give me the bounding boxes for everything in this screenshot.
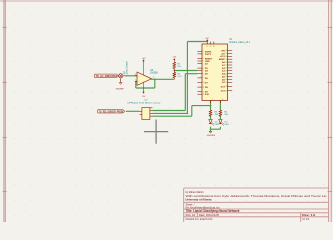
svg-text:30: 30: [213, 46, 215, 48]
svg-text:D1/TX: D1/TX: [205, 54, 212, 56]
svg-text:1: 1: [153, 77, 154, 79]
svg-text:Rev: 1.0: Rev: 1.0: [302, 213, 315, 217]
svg-text:13: 13: [203, 94, 205, 96]
svg-text:Date: 2024-03-05: Date: 2024-03-05: [199, 213, 220, 217]
svg-text:17: 17: [206, 46, 208, 48]
svg-text:+5V: +5V: [172, 56, 176, 58]
svg-text:18: 18: [225, 56, 227, 58]
svg-text:3: 3: [203, 58, 204, 60]
svg-text:TO_pH_AMPLIFIER: TO_pH_AMPLIFIER: [96, 74, 118, 78]
svg-text:11: 11: [203, 87, 205, 89]
svg-text:4: 4: [203, 61, 204, 63]
svg-text:6: 6: [203, 68, 204, 70]
svg-text:Title: Liquid Classifying Neur: Title: Liquid Classifying Neural Network: [186, 209, 240, 213]
svg-text:3: 3: [135, 74, 136, 76]
svg-text:28: 28: [225, 86, 227, 88]
svg-text:20: 20: [225, 62, 227, 64]
svg-text:TO_TDS_SENSOR_PROBE: TO_TDS_SENSOR_PROBE: [99, 109, 124, 113]
svg-text:19: 19: [225, 59, 227, 61]
svg-text:KiCad E.D.A. kicad 6.0.11: KiCad E.D.A. kicad 6.0.11: [186, 217, 214, 221]
svg-text:University of Alberta: University of Alberta: [186, 198, 212, 202]
svg-text:LED: LED: [215, 124, 220, 126]
svg-text:1: 1: [203, 51, 204, 53]
svg-text:9: 9: [203, 78, 204, 80]
svg-text:24: 24: [225, 73, 227, 75]
svg-text:Conn_Coaxial: Conn_Coaxial: [126, 61, 129, 74]
svg-text:Id: 1/1: Id: 1/1: [302, 218, 310, 221]
svg-text:2: 2: [203, 54, 204, 56]
svg-text:7: 7: [203, 70, 204, 72]
svg-text:+5V: +5V: [142, 58, 146, 60]
svg-text:25: 25: [225, 76, 227, 78]
svg-text:12: 12: [203, 91, 205, 93]
svg-text:LM358: LM358: [150, 72, 158, 75]
svg-text:27: 27: [210, 46, 212, 48]
svg-text:26: 26: [225, 79, 227, 81]
svg-text:GNDREF: GNDREF: [207, 135, 216, 137]
svg-text:10: 10: [203, 82, 205, 84]
svg-text:DFRobot TDS Meter sensor: DFRobot TDS Meter sensor: [128, 102, 161, 105]
svg-text:Size: A4: Size: A4: [186, 213, 196, 217]
svg-text:2: 2: [135, 79, 136, 81]
svg-text:Arduino_Nano_v3.x: Arduino_Nano_v3.x: [229, 41, 251, 44]
svg-text:22: 22: [225, 68, 227, 70]
svg-text:29: 29: [225, 90, 227, 92]
svg-text:17: 17: [225, 53, 227, 55]
svg-text:8: 8: [203, 73, 204, 75]
svg-text:LED: LED: [225, 124, 230, 126]
svg-text:5: 5: [203, 63, 204, 65]
svg-text:GNDREF: GNDREF: [116, 89, 125, 91]
svg-text:23: 23: [225, 70, 227, 72]
svg-text:16: 16: [225, 50, 227, 52]
svg-text:21: 21: [225, 65, 227, 67]
svg-text:27: 27: [225, 82, 227, 84]
svg-text:29: 29: [222, 99, 224, 101]
svg-text:-5V: -5V: [142, 96, 146, 98]
